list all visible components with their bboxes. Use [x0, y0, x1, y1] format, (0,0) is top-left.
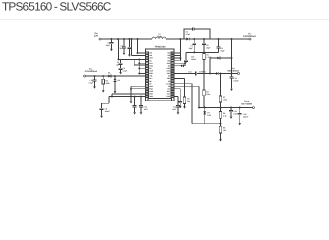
svg-text:18: 18: [146, 96, 148, 98]
junction C18: [239, 107, 241, 109]
pin box right 27: [171, 75, 174, 77]
wire C20 bottom: [179, 103, 181, 106]
svg-text:FRQ: FRQ: [149, 64, 153, 67]
capacitor C13: [196, 72, 197, 76]
junction bus r9: [138, 73, 140, 75]
IC U1 TPS65160 body: [146, 49, 175, 101]
wire C12 bottom: [177, 107, 179, 112]
wire PGND row: [131, 88, 146, 90]
wire C14 bottom: [231, 78, 233, 89]
pin box right 22: [171, 88, 174, 90]
resistor R8: [219, 112, 221, 119]
junction SW node: [179, 38, 181, 40]
svg-text:C64.7pF: C64.7pF: [186, 31, 192, 36]
wire N1 to D4: [210, 72, 216, 74]
wire C16 bottom: [230, 112, 232, 117]
wire C20 top: [179, 89, 181, 102]
wire snubber right: [194, 29, 210, 39]
svg-text:VS15V/350mA: VS15V/350mA: [243, 33, 256, 38]
svg-text:L110µH: L110µH: [157, 33, 162, 38]
svg-text:C18220nF: C18220nF: [243, 113, 249, 118]
svg-text:CE: CE: [149, 82, 152, 85]
wire C3 mid: [120, 65, 122, 69]
svg-text:SUP: SUP: [167, 62, 171, 65]
ground GND bus: [130, 101, 133, 103]
wire C1 top: [110, 39, 112, 42]
svg-text:DRP: DRP: [167, 67, 171, 70]
wire C4 bottom: [94, 81, 96, 86]
terminal VGH: [238, 72, 240, 74]
svg-text:19: 19: [172, 96, 174, 98]
resistor R9: [219, 126, 221, 133]
wire SW row 2: [174, 55, 180, 57]
pin box right 32: [171, 62, 174, 64]
capacitor C7: [192, 43, 196, 44]
wire D5 up: [183, 63, 185, 66]
ground C4: [93, 87, 96, 89]
junction zener: [204, 107, 206, 109]
wire output cap rail: [186, 51, 219, 53]
junction AVIN rail: [137, 38, 139, 40]
capacitor C14: [230, 77, 234, 78]
diode D1: [186, 38, 189, 41]
wire SW row 1: [174, 52, 180, 54]
junction Vs drop D3: [231, 57, 233, 59]
wire C5 bottom: [101, 110, 103, 116]
svg-text:C810µF: C810µF: [206, 44, 211, 49]
svg-text:VCOMDC-VCOM: VCOMDC-VCOM: [241, 100, 252, 105]
wire C10 top: [140, 97, 142, 106]
pin box right 31: [171, 65, 174, 67]
wire C2b top: [128, 39, 130, 47]
wire C10 bottom: [140, 107, 142, 112]
svg-text:TPS65160 - SLVS566C: TPS65160 - SLVS566C: [2, 0, 112, 14]
junction EN bus: [138, 58, 140, 60]
diode D6: [114, 79, 117, 82]
svg-text:C910µF: C910µF: [220, 47, 225, 52]
pin box left 12: [146, 80, 149, 82]
capacitor C2: [122, 47, 126, 48]
svg-text:VIN: VIN: [149, 54, 153, 57]
pin box right 28: [171, 73, 174, 75]
wire D6 top: [114, 76, 116, 79]
pin box left 15: [146, 88, 149, 90]
ground C20: [179, 106, 182, 108]
terminal Vs: [249, 38, 251, 40]
svg-text:C1010nF: C1010nF: [144, 105, 149, 110]
wire C7 top: [193, 39, 195, 43]
wire left bus: [138, 59, 140, 73]
wire C2 bottom: [123, 48, 125, 53]
wire R3 top: [184, 79, 186, 97]
capacitor C15: [184, 60, 188, 61]
wire R3 bottom: [184, 103, 186, 106]
pin box right 36: [171, 52, 174, 54]
pin box left 18: [146, 96, 149, 98]
diode D7 zener: [203, 111, 206, 114]
svg-text:C14100nF: C14100nF: [233, 77, 239, 82]
ground C3: [119, 72, 122, 74]
pin box left 5: [146, 62, 149, 64]
capacitor C18: [238, 113, 242, 114]
svg-text:R4150k: R4150k: [106, 79, 110, 84]
junction C3 branch: [117, 38, 119, 40]
wire GND row: [131, 85, 146, 87]
wire C4 top: [94, 76, 96, 80]
wire EN row: [118, 58, 145, 60]
svg-text:D2: D2: [108, 71, 110, 74]
junction rail C8: [203, 51, 205, 53]
junction rail C7: [193, 51, 195, 53]
junction C1: [110, 38, 112, 40]
ground C12: [177, 112, 180, 114]
wire C18 bottom: [239, 115, 241, 123]
wire EN vertical: [117, 39, 119, 59]
resistor R1: [203, 54, 205, 60]
junction FB rail: [198, 107, 200, 109]
svg-text:FBN: FBN: [149, 93, 153, 96]
pin box right 25: [171, 80, 174, 82]
wire SW row 4: [174, 60, 180, 62]
wire D6 bottom: [114, 82, 116, 91]
wire R9 bottom: [220, 133, 222, 139]
ground C18: [238, 123, 241, 125]
junction EN left: [117, 58, 119, 60]
pin box left 11: [146, 78, 149, 80]
svg-text:VDD: VDD: [149, 57, 153, 60]
wire SW row 3: [174, 57, 180, 59]
wire D5 row: [174, 65, 181, 67]
junction R4: [102, 75, 104, 77]
junction GND bus: [130, 88, 132, 90]
junction VGH drop: [231, 38, 233, 40]
resistor R4: [102, 79, 104, 84]
wire DRV row: [174, 72, 196, 74]
svg-text:VGL: VGL: [149, 75, 153, 78]
wire COMP down: [191, 84, 193, 124]
pin box left 9: [146, 73, 149, 75]
capacitor C5: [100, 108, 104, 109]
terminal VCOM: [253, 107, 255, 109]
wire N1 up: [209, 58, 211, 73]
wire bus stub r9: [139, 72, 145, 74]
svg-text:R912k: R912k: [223, 127, 226, 132]
svg-text:C15100nF: C15100nF: [191, 56, 197, 61]
wire zener top: [204, 108, 206, 112]
wire C20 row: [174, 88, 180, 90]
capacitor C6 snubber: [193, 27, 194, 30]
header separator line: [0, 19, 329, 21]
wire R4 top: [102, 76, 104, 79]
IC U1 thermal pad: [148, 99, 172, 101]
wire GND bus: [130, 86, 132, 101]
wire C2b bottom: [128, 49, 130, 55]
terminal Vin: [99, 38, 101, 40]
svg-text:AGN: AGN: [149, 90, 154, 93]
svg-text:SS: SS: [149, 67, 152, 70]
wire C9 bottom: [218, 48, 220, 52]
wire C12 top: [177, 97, 179, 106]
svg-text:D75.6V: D75.6V: [207, 111, 211, 116]
pin box left 6: [146, 65, 149, 67]
ground C14: [230, 89, 233, 91]
junction R8: [220, 107, 222, 109]
junction AVIN row: [137, 52, 139, 54]
ground C1: [110, 49, 113, 51]
junction SW bus: [179, 57, 181, 59]
wire C14 top: [231, 73, 233, 76]
svg-text:R324k: R324k: [187, 98, 190, 103]
ground C10: [140, 112, 143, 114]
junction bus r7: [138, 67, 140, 69]
wire C3 top: [120, 59, 122, 63]
diode D3: [217, 57, 220, 60]
ground C2: [123, 53, 126, 55]
pin box left 4: [146, 60, 149, 62]
ground R9: [219, 139, 222, 141]
wire C8 bottom: [203, 45, 205, 53]
svg-text:VGH+28V/20mA: VGH+28V/20mA: [227, 67, 239, 72]
junction D5/SUP: [184, 62, 186, 64]
pin box right 26: [171, 78, 174, 80]
wire stair r18: [109, 96, 146, 98]
wire bus stub r7: [139, 67, 145, 69]
pin box left 10: [146, 75, 149, 77]
junction C16: [230, 107, 232, 109]
wire R1 to R2: [203, 60, 205, 91]
pin box left 14: [146, 85, 149, 87]
pin box right 19: [171, 96, 174, 98]
svg-text:C5100nF: C5100nF: [105, 108, 111, 113]
svg-text:FBP: FBP: [167, 77, 171, 80]
pin box right 34: [171, 57, 174, 59]
svg-text:DRN: DRN: [149, 95, 153, 98]
svg-text:ADJ: ADJ: [149, 62, 152, 65]
wire C1 bottom: [110, 44, 112, 49]
svg-text:R2100k: R2100k: [206, 90, 210, 95]
wire FB down: [198, 86, 200, 107]
wire COMP row: [174, 83, 192, 85]
capacitor C8: [202, 43, 206, 44]
wire D4 to VGH: [219, 72, 238, 74]
wire C5 top: [101, 103, 103, 108]
capacitor C10: [139, 106, 143, 107]
pin box right 20: [171, 93, 174, 95]
junction C14: [231, 73, 233, 75]
pin box right 24: [171, 83, 174, 85]
svg-text:C1210nF: C1210nF: [172, 105, 177, 110]
svg-text:CMP: CMP: [149, 70, 154, 73]
wire D1 to Vs: [190, 38, 249, 40]
wire C18 top: [239, 108, 241, 114]
capacitor C1: [110, 42, 114, 43]
terminal VGL: [84, 75, 86, 77]
svg-text:DLY: DLY: [149, 77, 153, 80]
svg-text:BAS: BAS: [167, 95, 171, 98]
junction divider mid: [220, 123, 222, 125]
junction stair: [111, 96, 113, 98]
wire VDD vertical: [131, 39, 133, 56]
svg-text:COM: COM: [166, 82, 171, 85]
wire C15 vertical: [185, 52, 187, 60]
pin box right 29: [171, 70, 174, 72]
junction C2: [123, 38, 125, 40]
wire N1 to D3: [210, 57, 217, 59]
wire C11 top: [134, 97, 136, 106]
pin box right 35: [171, 55, 174, 57]
wire AVIN vertical: [137, 39, 139, 53]
ground C2b: [128, 55, 131, 57]
wire stair r17: [112, 93, 146, 95]
wire R1 top: [203, 52, 205, 53]
wire L1 to SW node: [166, 38, 186, 40]
svg-text:SW: SW: [168, 57, 171, 60]
junction C7: [193, 38, 195, 40]
svg-text:C710µF: C710µF: [189, 45, 194, 50]
wire Vin rail: [101, 38, 152, 40]
svg-text:1nF/50V: 1nF/50V: [199, 70, 207, 73]
diode D5: [181, 65, 184, 68]
wire SUP row: [174, 62, 186, 64]
wire R8 top: [220, 108, 222, 112]
svg-text:DRV: DRV: [167, 72, 171, 75]
pin box right 21: [171, 90, 174, 92]
wire stair v2: [108, 97, 110, 104]
wire R3 row: [174, 78, 185, 80]
wire bus stub r5: [139, 62, 145, 64]
node N1: [209, 73, 211, 75]
capacitor C16: [229, 110, 233, 111]
pin box left 1: [146, 52, 149, 54]
wire C9 top: [218, 39, 220, 47]
wire row3 step: [134, 59, 145, 65]
junction C4: [94, 75, 96, 77]
junction C9: [218, 38, 220, 40]
wire C11 bottom: [134, 107, 136, 112]
wire D3 to Vs drop: [220, 57, 232, 59]
capacitor C11: [133, 106, 137, 107]
wire zener bottom: [204, 115, 206, 124]
svg-text:VIN: VIN: [149, 52, 153, 55]
wire stair h: [102, 102, 109, 104]
wire R9 top: [220, 124, 222, 127]
capacitor C4: [93, 80, 97, 81]
ground C11: [133, 112, 136, 114]
svg-text:SW: SW: [168, 54, 171, 57]
svg-text:C31µF: C31µF: [116, 61, 120, 66]
svg-text:VIN12V: VIN12V: [94, 32, 99, 37]
wire snubber left: [184, 29, 193, 39]
junction R7 vgh: [220, 73, 222, 75]
pin box left 13: [146, 83, 149, 85]
junction C2b: [128, 38, 130, 40]
diode D4: [216, 72, 219, 75]
resistor R7: [219, 96, 221, 102]
wire VCOM rail: [199, 107, 253, 109]
svg-text:D6: D6: [118, 79, 120, 82]
svg-text:TPS65160: TPS65160: [154, 46, 166, 49]
svg-text:C13: C13: [188, 70, 191, 73]
capacitor C12: [176, 106, 180, 107]
wire C12 stub: [174, 96, 178, 98]
svg-text:SW: SW: [168, 59, 171, 62]
ground R3: [183, 106, 186, 108]
wire C8 top: [203, 39, 205, 43]
diode D2: [108, 75, 111, 78]
wire SW bus vertical: [179, 39, 181, 61]
svg-text:C40.1µF: C40.1µF: [123, 67, 129, 72]
wire R7 vgh: [220, 73, 222, 96]
capacitor C4b: [119, 68, 123, 69]
junction C11 feed: [134, 96, 136, 98]
wire AVIN row: [138, 52, 146, 54]
junction D6: [114, 75, 116, 77]
wire C13 to N1: [197, 72, 210, 74]
wire R2 bottom: [203, 96, 205, 108]
wire VGL rail: [86, 75, 146, 77]
wire FB row: [174, 85, 199, 87]
wire VDD row: [132, 55, 146, 57]
svg-text:R82.4k: R82.4k: [223, 112, 227, 117]
wire C7 bottom: [193, 45, 195, 53]
wire C16 top: [230, 108, 232, 111]
svg-text:RE: RE: [149, 80, 152, 83]
wire R4 bottom: [102, 84, 104, 90]
pin box left 2: [146, 55, 149, 57]
ground C16: [230, 117, 233, 119]
pin box left 3: [146, 57, 149, 59]
inductor L1: [152, 37, 166, 39]
pin box left 7: [146, 67, 149, 69]
pin box right 23: [171, 85, 174, 87]
svg-text:VGL-10V/420mA: VGL-10V/420mA: [84, 67, 97, 72]
junction C10 feed: [140, 96, 142, 98]
svg-text:DRN: DRN: [167, 70, 171, 73]
capacitor C20: [178, 101, 182, 102]
pin box left 16: [146, 90, 149, 92]
capacitor C3: [119, 63, 123, 64]
wire comp return: [192, 123, 221, 125]
ground R4: [102, 90, 105, 92]
ground C5: [100, 116, 103, 118]
wire C3 bottom: [120, 70, 122, 73]
junction C8: [203, 38, 205, 40]
resistor R2: [203, 90, 205, 96]
capacitor C9: [217, 47, 221, 48]
svg-text:SW: SW: [168, 52, 171, 55]
svg-text:GND: GND: [149, 85, 154, 88]
svg-text:R7100k: R7100k: [223, 96, 227, 101]
ground D6: [114, 91, 117, 93]
pin box right 33: [171, 60, 174, 62]
pin box left 8: [146, 70, 149, 72]
junction bus r5: [138, 62, 140, 64]
svg-text:CPI: CPI: [167, 87, 170, 90]
wire R8 bottom: [220, 118, 222, 124]
pin box right 30: [171, 67, 174, 69]
resistor R3: [183, 97, 185, 103]
wire C2 top: [123, 39, 125, 47]
wire stair v1: [111, 94, 113, 97]
junction AVIN drop: [131, 38, 133, 40]
wire Vs drop: [231, 39, 233, 73]
pin box left 17: [146, 93, 149, 95]
svg-text:C24.7µF: C24.7µF: [118, 45, 124, 50]
capacitor C2b: [128, 47, 132, 48]
wire R7 bottom: [220, 102, 222, 108]
wire C15 stub: [185, 62, 187, 64]
